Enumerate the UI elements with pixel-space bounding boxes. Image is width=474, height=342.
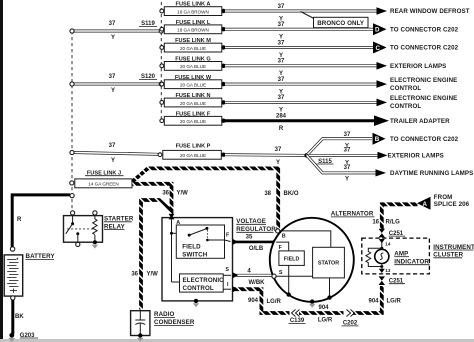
fuse link N — [160, 93, 226, 107]
label instrument cluster — [433, 244, 474, 259]
svg-text:B: B — [375, 136, 380, 143]
svg-text:FUSE LINK G: FUSE LINK G — [175, 57, 210, 63]
label starter relay — [104, 216, 134, 231]
wire 16 R/LG from splice 206 — [372, 204, 417, 230]
fuse link W — [160, 75, 226, 89]
svg-text:Y: Y — [111, 35, 115, 41]
svg-text:14: 14 — [385, 241, 391, 246]
svg-text:20 GA BLUE: 20 GA BLUE — [180, 153, 206, 158]
label radio condenser — [154, 311, 195, 326]
svg-text:SPLICE 206: SPLICE 206 — [434, 201, 470, 208]
fuse link F — [160, 111, 226, 125]
wire 37 Y to fuse link P — [70, 143, 158, 164]
wire 37 Y fuse M — [225, 40, 373, 59]
svg-text:TRAILER ADAPTER: TRAILER ADAPTER — [390, 118, 450, 125]
wire 37 Y fuse G — [225, 59, 387, 78]
svg-text:37: 37 — [344, 147, 351, 153]
svg-text:EXTERIOR LAMPS: EXTERIOR LAMPS — [388, 153, 444, 160]
svg-text:ELECTRONIC: ELECTRONIC — [183, 277, 225, 284]
svg-text:ELECTRONIC ENGINE: ELECTRONIC ENGINE — [390, 95, 457, 102]
splice S115 junction — [304, 153, 333, 165]
svg-text:18 GA BROWN: 18 GA BROWN — [177, 9, 209, 14]
svg-text:284: 284 — [276, 114, 287, 120]
wire 4 W/BK regulator S to alternator S — [233, 268, 272, 286]
svg-text:20 GA BLUE: 20 GA BLUE — [180, 119, 206, 124]
svg-text:LG/R: LG/R — [267, 299, 282, 305]
svg-text:Y: Y — [111, 88, 115, 94]
svg-text:CONTROL: CONTROL — [183, 285, 214, 292]
battery positive wire R — [12, 194, 74, 248]
svg-text:20 GA BLUE: 20 GA BLUE — [180, 83, 206, 88]
instrument cluster box — [362, 238, 430, 274]
label electronic engine control 1 — [390, 77, 457, 92]
wire 37 Y fuse N — [225, 95, 387, 114]
electronic control — [180, 274, 225, 292]
svg-text:BK/O: BK/O — [284, 191, 299, 197]
starter relay — [64, 211, 103, 249]
radio condenser — [131, 311, 150, 342]
label amp indicator — [394, 251, 429, 266]
connector C to C202 — [373, 42, 387, 54]
wire 36 Y/W fuse J to voltage regulator A — [132, 184, 188, 216]
svg-text:37: 37 — [278, 4, 285, 10]
svg-text:FUSE LINK N: FUSE LINK N — [175, 93, 210, 99]
label electronic engine control 2 — [390, 95, 457, 110]
connector C251 upper — [379, 229, 405, 238]
fuse link P — [158, 143, 226, 159]
wire 37 Y fuse W — [225, 77, 387, 96]
svg-text:ELECTRONIC ENGINE: ELECTRONIC ENGINE — [390, 77, 457, 84]
svg-text:FUSE LINK A: FUSE LINK A — [176, 2, 211, 8]
svg-text:EXTERIOR LAMPS: EXTERIOR LAMPS — [390, 63, 446, 70]
svg-text:O/LB: O/LB — [249, 246, 264, 252]
svg-text:36: 36 — [162, 190, 169, 196]
svg-text:18 GA BROWN: 18 GA BROWN — [177, 28, 209, 33]
svg-text:S: S — [279, 270, 283, 276]
svg-text:REAR WINDOW DEFROST: REAR WINDOW DEFROST — [390, 8, 470, 15]
svg-text:R: R — [17, 217, 22, 223]
voltage regulator box — [162, 214, 233, 301]
svg-text:SWITCH: SWITCH — [182, 251, 207, 258]
amp indicator — [366, 239, 391, 273]
svg-text:C: C — [376, 45, 381, 52]
svg-text:CONTROL: CONTROL — [390, 103, 421, 110]
svg-text:R/LG: R/LG — [386, 220, 401, 226]
wire 37 Y to exterior lamps — [307, 147, 388, 166]
svg-text:20 GA BLUE: 20 GA BLUE — [180, 64, 206, 69]
wire 37 Y fuse A — [225, 4, 387, 23]
label voltage regulator — [236, 218, 276, 233]
svg-text:D: D — [375, 27, 380, 34]
fuse link J — [70, 170, 132, 187]
svg-text:13: 13 — [385, 268, 391, 273]
wire 37 Y to daytime running lamps — [307, 155, 386, 182]
svg-text:STATOR: STATOR — [318, 261, 339, 267]
svg-text:FUSE LINK L: FUSE LINK L — [176, 20, 211, 26]
svg-text:37: 37 — [278, 59, 285, 65]
svg-text:35: 35 — [246, 234, 253, 240]
fuse link G — [160, 57, 226, 71]
connector B to C202 — [373, 133, 386, 145]
bus dashed line D1 — [71, 31, 73, 213]
ground G203 — [20, 333, 38, 339]
wire 36 Y/W branch to radio condenser — [131, 200, 171, 310]
pin I of regulator — [223, 282, 231, 289]
svg-text:Y/W: Y/W — [177, 190, 189, 196]
svg-text:DAYTIME RUNNING LAMPS: DAYTIME RUNNING LAMPS — [390, 170, 473, 177]
regulator case ground — [193, 299, 200, 308]
label battery — [26, 253, 56, 260]
svg-text:37: 37 — [278, 40, 285, 46]
svg-text:37: 37 — [109, 143, 116, 149]
svg-text:37: 37 — [344, 132, 351, 138]
bus dashed line D2 — [160, 2, 162, 121]
field switch — [176, 225, 224, 258]
svg-text:FIELD: FIELD — [182, 244, 201, 251]
svg-text:37: 37 — [275, 147, 282, 153]
svg-text:B: B — [282, 233, 286, 239]
wire 35 O/LB regulator F to alternator F — [233, 234, 278, 252]
svg-text:Y: Y — [276, 160, 280, 166]
svg-text:16: 16 — [372, 220, 379, 226]
wire 37 Y fuse L — [225, 22, 373, 41]
svg-text:R: R — [279, 126, 284, 132]
svg-text:38: 38 — [264, 191, 271, 197]
svg-text:CONTROL: CONTROL — [390, 85, 421, 92]
svg-text:BRONCO ONLY: BRONCO ONLY — [317, 20, 365, 27]
svg-text:20 GA BLUE: 20 GA BLUE — [180, 101, 206, 106]
wire 37 Y to connector B — [307, 132, 372, 155]
svg-text:+: + — [16, 256, 19, 261]
wire 38 BK/O fuse J to alternator B — [132, 168, 298, 228]
svg-text:FUSE LINK F: FUSE LINK F — [176, 111, 211, 117]
wire 37 Y splice S119 — [70, 21, 163, 41]
svg-text:37: 37 — [344, 165, 351, 171]
svg-text:LG/R: LG/R — [318, 317, 333, 323]
pin S of regulator — [223, 267, 231, 275]
connector D to C202 — [373, 23, 387, 35]
svg-text:FUSE LINK W: FUSE LINK W — [175, 75, 212, 81]
label from splice 206 — [434, 194, 470, 208]
svg-text:37: 37 — [278, 22, 285, 28]
svg-text:14 GA GREEN: 14 GA GREEN — [88, 182, 118, 187]
svg-text:904: 904 — [248, 298, 259, 304]
svg-text:37: 37 — [278, 95, 285, 101]
svg-text:37: 37 — [109, 74, 116, 80]
svg-text:W/BK: W/BK — [249, 280, 266, 286]
svg-text:S: S — [225, 267, 229, 273]
connector C139 — [289, 309, 306, 324]
bronco only callout — [301, 12, 369, 28]
wire 37 Y splice S120 — [70, 74, 163, 94]
svg-text:37: 37 — [278, 77, 285, 83]
battery ground wire BK — [8, 300, 24, 342]
svg-text:FUSE LINK P: FUSE LINK P — [176, 143, 211, 149]
svg-text:A: A — [423, 201, 428, 208]
wire 37 Y fuse P to splice S115 — [225, 147, 307, 166]
alternator — [270, 218, 354, 308]
svg-text:Y: Y — [345, 176, 349, 182]
svg-text:Y/W: Y/W — [147, 271, 159, 277]
svg-text:20 GA BLUE: 20 GA BLUE — [180, 46, 206, 51]
fuse link M — [160, 38, 226, 52]
svg-text:904: 904 — [368, 299, 379, 305]
svg-text:37: 37 — [109, 21, 116, 27]
pin F of regulator — [225, 233, 231, 242]
splice S120 — [139, 74, 157, 80]
scan artifact bottom band — [0, 339, 474, 342]
svg-text:FIELD: FIELD — [284, 257, 300, 263]
wire 284 R fuse F trailer adapter — [225, 114, 389, 133]
connector C251 lower — [379, 276, 405, 285]
svg-text:FROM: FROM — [434, 194, 453, 201]
page edge bar — [0, 0, 3, 342]
svg-text:TO CONNECTOR C202: TO CONNECTOR C202 — [390, 45, 459, 52]
connector C202 — [342, 309, 359, 327]
fuse link A — [160, 2, 226, 16]
splice S119 — [139, 21, 157, 27]
svg-text:FUSE LINK M: FUSE LINK M — [175, 38, 211, 44]
battery — [4, 247, 23, 300]
svg-text:TO CONNECTOR C202: TO CONNECTOR C202 — [390, 26, 459, 33]
wire 904 LG/R regulator I to C251 — [233, 286, 402, 323]
svg-text:Y: Y — [111, 158, 115, 164]
connector A from splice 206 — [417, 197, 431, 210]
svg-text:904: 904 — [318, 305, 329, 311]
fuse link L — [160, 20, 226, 34]
svg-text:TO CONNECTOR C202: TO CONNECTOR C202 — [390, 136, 459, 143]
svg-text:BK: BK — [15, 314, 24, 320]
svg-text:36: 36 — [131, 271, 138, 277]
label alternator — [331, 211, 375, 218]
svg-text:LG/R: LG/R — [387, 299, 402, 305]
